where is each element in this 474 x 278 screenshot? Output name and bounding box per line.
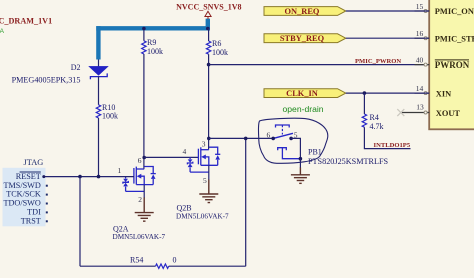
svg-text:PMIC_STBY_REQ: PMIC_STBY_REQ bbox=[435, 34, 474, 43]
svg-text:CLK_IN: CLK_IN bbox=[286, 89, 318, 98]
svg-text:PMIC_ON_REQ: PMIC_ON_REQ bbox=[435, 7, 474, 16]
pin name TDO/SWO bbox=[4, 199, 41, 208]
junction RESET/R10 branch bbox=[97, 175, 101, 179]
junction riser/PB1 wire bbox=[244, 137, 248, 141]
resistor R9 bbox=[142, 41, 146, 54]
pin 16 stub bbox=[415, 37, 430, 39]
designator Q2B bbox=[177, 204, 192, 213]
resistor R4 bbox=[362, 114, 366, 127]
svg-text:TRST: TRST bbox=[21, 216, 41, 225]
wire STBY_REQ to pin 16 bbox=[346, 37, 429, 39]
value 100k bbox=[102, 112, 118, 121]
net label PMIC_PWRON bbox=[355, 58, 401, 65]
svg-text:14: 14 bbox=[416, 84, 424, 93]
wire CLK_IN to pin 14 bbox=[346, 92, 429, 94]
pin number 40 bbox=[416, 55, 424, 64]
value PTS820J25KSMTRLFS bbox=[308, 157, 389, 166]
value 100k bbox=[147, 47, 163, 56]
wire left drop to bottom run bbox=[79, 177, 81, 267]
pin name RESET with overline bbox=[16, 172, 41, 181]
svg-text:5: 5 bbox=[203, 176, 207, 185]
svg-text:D2: D2 bbox=[71, 63, 81, 72]
svg-text:6: 6 bbox=[267, 131, 271, 140]
svg-text:uA: uA bbox=[0, 28, 5, 35]
svg-text:DMN5L06VAK-7: DMN5L06VAK-7 bbox=[113, 233, 166, 241]
value 100k bbox=[212, 48, 228, 57]
value PMEG4005EPK,315 bbox=[12, 75, 81, 84]
svg-text:XIN: XIN bbox=[436, 89, 451, 98]
ground under PB1 bbox=[291, 168, 310, 184]
svg-text:R6: R6 bbox=[212, 39, 221, 48]
svg-text:13: 13 bbox=[416, 103, 424, 112]
wire R9 bottom to node A bbox=[143, 54, 145, 169]
designator R4 bbox=[370, 113, 379, 122]
svg-text:XOUT: XOUT bbox=[436, 109, 461, 118]
pin number 6 bbox=[138, 156, 142, 165]
svg-text:PTS820J25KSMTRLFS: PTS820J25KSMTRLFS bbox=[308, 157, 389, 166]
power port NVCC_SNVS_1V8 triangle bbox=[205, 11, 211, 19]
svg-text:TCK/SCK: TCK/SCK bbox=[6, 190, 41, 199]
svg-text:NVCC_SNVS_1V8: NVCC_SNVS_1V8 bbox=[176, 2, 241, 11]
svg-text:TDO/SWO: TDO/SWO bbox=[4, 199, 41, 208]
svg-text:R9: R9 bbox=[147, 38, 156, 47]
wire R6 top bbox=[208, 28, 210, 41]
svg-text:ON_REQ: ON_REQ bbox=[285, 7, 320, 16]
pin number 15 bbox=[416, 2, 424, 11]
wire thick bus neck up to power port bbox=[206, 19, 210, 31]
svg-text:4.7k: 4.7k bbox=[370, 122, 384, 131]
wire Q2B source to ground bbox=[208, 165, 210, 180]
svg-text:RESET: RESET bbox=[16, 172, 41, 181]
connector JTAG body bbox=[3, 168, 46, 227]
junction RESET/R54 branch bbox=[78, 175, 82, 179]
PB1 contact 5 bbox=[289, 137, 293, 141]
junction on bus at R9 bbox=[142, 27, 146, 31]
junction on bus at R6 bbox=[206, 27, 210, 31]
svg-text:3: 3 bbox=[202, 140, 206, 149]
port STBY_REQ bbox=[264, 34, 346, 43]
pin number 2 bbox=[138, 195, 142, 204]
wire Q2A source to ground bbox=[143, 185, 145, 198]
designator R10 bbox=[102, 103, 115, 112]
resistor R54 bbox=[156, 264, 169, 268]
wire NVCC_SNVS_1V8 thick bus horizontal bbox=[96, 26, 210, 30]
designator Q2A bbox=[113, 224, 129, 233]
wire R9 top bbox=[143, 28, 145, 41]
pin name PMIC_ON_REQ bbox=[435, 7, 474, 16]
resistor R10 bbox=[96, 105, 100, 118]
pin number 1 bbox=[118, 166, 122, 175]
designator PB1 bbox=[308, 147, 322, 156]
pin number 5 bbox=[203, 176, 207, 185]
no-connect X on pin 13 bbox=[397, 109, 404, 116]
wire PB1 to ground bbox=[299, 159, 301, 168]
svg-text:16: 16 bbox=[416, 29, 424, 38]
designator D2 bbox=[71, 63, 81, 72]
svg-text:100k: 100k bbox=[102, 112, 118, 121]
junction Q2B drain node bbox=[207, 137, 211, 141]
wire Q2B drain to PB1 bbox=[209, 137, 273, 139]
annotation open-drain bbox=[283, 104, 324, 114]
svg-text:JTAG: JTAG bbox=[24, 158, 44, 167]
svg-text:INTLDO1P5: INTLDO1P5 bbox=[374, 142, 411, 149]
svg-text:PMIC_PWRON: PMIC_PWRON bbox=[355, 58, 401, 65]
svg-text:0: 0 bbox=[173, 255, 177, 264]
svg-text:40: 40 bbox=[416, 55, 424, 64]
svg-text:PWRON: PWRON bbox=[435, 60, 470, 70]
pin name PMIC_STBY_REQ bbox=[435, 34, 474, 43]
connector title JTAG bbox=[24, 158, 44, 167]
svg-text:15: 15 bbox=[416, 2, 424, 11]
svg-text:R10: R10 bbox=[102, 103, 115, 112]
junction R6/PWRON/Q2B node bbox=[207, 63, 211, 67]
net label NVCC_SNVS_1V8 bbox=[176, 2, 241, 11]
wire R10 bottom to RESET net bbox=[98, 118, 100, 177]
pin number 16 bbox=[416, 29, 424, 38]
unconnected pin bullets bbox=[46, 185, 48, 223]
svg-text:PB1: PB1 bbox=[308, 147, 322, 156]
pin 13 stub (unconnected) bbox=[402, 112, 429, 114]
junction node A (R9 / Q2A drain / Q2B gate) bbox=[142, 156, 146, 160]
wire R4 top bbox=[363, 93, 365, 114]
wire ON_REQ to pin 15 bbox=[346, 10, 429, 12]
wire PMIC_PWRON to pin 40 bbox=[209, 64, 429, 66]
pin number 14 bbox=[416, 84, 424, 93]
IC U1 PMIC body bbox=[429, 0, 474, 129]
wire right riser to PB1 net bbox=[245, 138, 247, 266]
ground under Q2A bbox=[135, 198, 154, 222]
pin name TDI bbox=[27, 208, 41, 217]
PB1 lever bbox=[273, 133, 293, 138]
wire RESET net to Q2A gate bbox=[42, 175, 134, 178]
wire node A to Q2B gate bbox=[144, 156, 198, 158]
pin name TCK/SCK bbox=[6, 190, 41, 199]
transistor Q2B DMN5L06VAK-7 bbox=[187, 147, 220, 172]
svg-text:Q2B: Q2B bbox=[177, 204, 192, 213]
pin 14 stub bbox=[415, 92, 430, 94]
pin number 3 bbox=[202, 140, 206, 149]
svg-text:6: 6 bbox=[138, 156, 142, 165]
svg-text:1: 1 bbox=[118, 166, 122, 175]
wire pin5 down bbox=[291, 138, 300, 158]
pin hotspot bubbles bbox=[424, 10, 427, 115]
resistor R6 bbox=[206, 41, 210, 54]
designator R54 bbox=[130, 255, 143, 264]
PB1 contact 6 bbox=[271, 137, 275, 141]
PB1 lower fixed contact bbox=[278, 148, 301, 159]
pin number 6 bbox=[267, 131, 271, 140]
transistor Q2A DMN5L06VAK-7 bbox=[123, 167, 156, 192]
port CLK_IN bbox=[264, 89, 346, 98]
svg-text:TDI: TDI bbox=[27, 208, 41, 217]
net label C_DRAM_1V1 (clipped at left edge) bbox=[0, 16, 52, 25]
svg-text:C_DRAM_1V1: C_DRAM_1V1 bbox=[0, 16, 52, 25]
net label INTLDO1P5 bbox=[374, 142, 411, 149]
svg-text:DMN5L06VAK-7: DMN5L06VAK-7 bbox=[176, 213, 229, 221]
wire R6 bottom to Q2B drain bbox=[208, 54, 210, 149]
PB1 actuator cap bbox=[276, 125, 290, 128]
svg-text:2: 2 bbox=[138, 195, 142, 204]
value 4.7k bbox=[370, 122, 384, 131]
value DMN5L06VAK-7 bbox=[176, 213, 229, 221]
pin name PWRON with overline bbox=[435, 60, 470, 70]
pin name XIN bbox=[436, 89, 451, 98]
svg-text:4: 4 bbox=[183, 147, 187, 156]
pin name TRST bbox=[21, 216, 41, 225]
svg-text:100k: 100k bbox=[212, 48, 228, 57]
pin number 5 bbox=[294, 131, 298, 140]
port ON_REQ bbox=[264, 7, 346, 16]
value 0 bbox=[173, 255, 177, 264]
designator R6 bbox=[212, 39, 221, 48]
svg-text:PMEG4005EPK,315: PMEG4005EPK,315 bbox=[12, 75, 81, 84]
wire bottom run left of R54 bbox=[80, 265, 156, 267]
designator R9 bbox=[147, 38, 156, 47]
svg-text:STBY_REQ: STBY_REQ bbox=[280, 34, 325, 43]
svg-text:100k: 100k bbox=[147, 47, 163, 56]
PB1 actuator dashed stem bbox=[281, 125, 283, 135]
pin name TMS/SWD bbox=[3, 181, 40, 190]
ground under Q2B bbox=[199, 180, 218, 203]
wire bottom run right of R54 bbox=[169, 265, 246, 267]
push button PB1 body outline bbox=[258, 118, 327, 163]
diode D2 (Schottky) bbox=[89, 60, 108, 105]
pin name XOUT bbox=[436, 109, 461, 118]
value DMN5L06VAK-7 bbox=[113, 233, 166, 241]
green annotation fragment at left edge bbox=[0, 28, 5, 35]
junction XIN/R4 bbox=[363, 91, 367, 95]
pin number 4 bbox=[183, 147, 187, 156]
pin 15 stub bbox=[415, 10, 430, 12]
junction PB1 lower node bbox=[299, 157, 303, 161]
wire thick bus left vertical drop to D2 bbox=[96, 26, 100, 59]
svg-text:TMS/SWD: TMS/SWD bbox=[3, 181, 40, 190]
pin 40 stub bbox=[415, 64, 430, 66]
svg-text:R54: R54 bbox=[130, 255, 143, 264]
svg-text:open-drain: open-drain bbox=[283, 104, 324, 114]
wire R4 bottom to INTLDO1P5 bbox=[364, 127, 410, 148]
pin number 13 bbox=[416, 103, 424, 112]
